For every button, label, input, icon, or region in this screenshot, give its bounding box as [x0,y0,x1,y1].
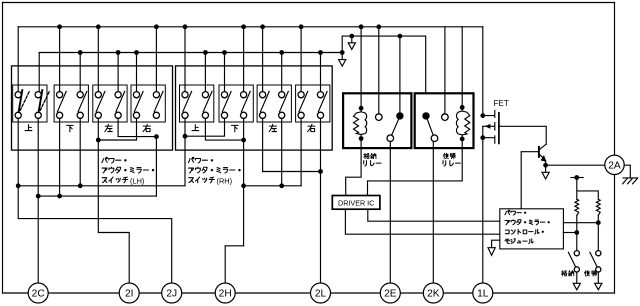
wire LH top stub 0 to rail1 [59,27,61,92]
node Q1 emitter junction [543,163,548,168]
switch cell 上 outline [13,85,47,122]
label 上 [192,125,199,131]
svg-text:2A: 2A [608,160,621,171]
return relay coil (inductor + resistor) [456,107,469,138]
node rail4 / LH down-a [57,194,62,199]
return relay switch arm [427,119,433,135]
node rail6 / RH down-b column [241,183,246,188]
retract position switch contact top [574,251,579,256]
label LH switch line1 [102,157,126,163]
wire LH top stub 1 to rail1 [97,27,99,92]
retract relay NC contact [376,114,383,121]
resistor R1 [575,199,579,215]
wire Q1 base to module [521,152,539,209]
switch 上 contact bottom [35,112,41,118]
wire supply stub [571,177,583,179]
return position switch arm [590,252,597,267]
wire outer loop top edge [3,2,615,4]
wire RH up-a down to junction [184,118,186,136]
power outer mirror switch LH block outline [12,66,173,150]
switch 上 contact top [35,92,41,98]
wire LH left-a to right-a crosslink [98,118,136,140]
switch 右 contact top [133,92,139,98]
label retract switch [561,271,573,276]
wire LH right-b down to rail4 [155,137,157,197]
wire return relay coil pin to rail1 [461,27,463,108]
wire RH left-b down to rail6 [281,118,283,185]
transistor Q1 emitter lead [539,154,545,165]
wire module to resistor R2 column [563,222,598,224]
wire rail3 (LH) [18,185,185,187]
wire rail B+ upper (to relays and FET) [18,26,483,28]
node rail2b / retract relay contact NO [398,34,403,39]
connector arrow return switch [595,283,602,290]
wire LH top stub 0 to rail2 [79,53,81,92]
connector 2H [215,283,235,303]
FET source terminal [483,126,495,143]
node FET drain [480,113,485,118]
retract relay coil (resistor + inductor) [354,108,367,138]
connector arrow to other circuit 2 [339,60,346,67]
resistor R2 [596,199,600,215]
wire RH left-a down to rail5 [262,118,264,171]
switch 下 arm [57,91,66,111]
switch 右 contact top [317,92,323,98]
label return relay line1 [443,153,455,158]
wire rail upper right drop to FET drain [482,27,484,116]
wire return relay common to 2K [432,142,434,284]
wire rail5 (RH left-a to 2L column) [263,171,321,173]
switch 下 contact top [57,92,63,98]
node rail2 / LH down-b [78,50,83,55]
switch 右 arm [154,91,163,111]
switch 下 arm [78,91,87,111]
switch 上 arm [183,91,192,111]
switch 左 arm [116,91,125,111]
switch 下 contact bottom [77,112,83,118]
node rail3 / LH down-b [78,183,83,188]
svg-text:2C: 2C [32,289,45,300]
switch cell 上 outline [180,85,214,122]
switch 左 contact bottom [115,112,121,118]
node return coil top [460,105,465,110]
wire R2 to return position switch [597,223,599,251]
switch 上 arm actuated position (dashed) [20,91,29,111]
wire LH left-a jog to 2I [98,140,129,283]
switch 上 contact bottom [182,112,188,118]
connector arrow retract switch [573,283,580,290]
retract relay NO contact (closed) [396,112,403,119]
node rail2 / RH down-a [222,50,227,55]
node rail2 / RH up-b [203,50,208,55]
node rail2 / RH left-b [279,50,284,55]
wire RH top stub 1 to rail1 [243,27,245,92]
node rail1 / RH down-b [241,24,246,29]
chassis ground symbol [623,178,638,184]
switch 右 arm [134,91,143,111]
switch 右 contact bottom [298,112,304,118]
wire Q1 emitter arrow stub [545,165,547,172]
connector arrow below Q1 [542,172,549,179]
node rail6 / RH left-b [279,183,284,188]
wire LH top stub 2 to rail1 [155,27,157,92]
node rail1 / LH left-a [96,24,101,29]
node supply stub [574,175,579,180]
node rail4 left end / 2C column [36,194,41,199]
switch 下 contact top [221,92,227,98]
node rail1 / LH right-b [154,24,159,29]
switch cell 左 outline [257,85,291,122]
label RH switch line3 [189,177,214,183]
node rail1 / retract relay coil [359,24,364,29]
label 右 [308,124,315,131]
node retract coil bottom [359,136,364,141]
switch 上 contact bottom [202,112,208,118]
connector arrow to other circuit 1 [348,43,355,50]
wire retract relay coil to driver IC [346,139,361,196]
node R2 bottom / module wire [596,220,601,225]
switch 下 contact bottom [57,112,63,118]
label module line1 [505,210,526,215]
switch 上 contact bottom [15,112,21,118]
return position switch contact bottom [596,267,601,272]
switch 右 arm [318,91,327,111]
node return coil bottom [460,137,465,142]
wire LH top stub 2 to rail2 [136,53,138,92]
svg-text:2E: 2E [384,289,397,300]
label module line4 [505,239,533,244]
node rail1 / retract relay contact [376,24,381,29]
wire RH up-b to down-b crosslink [205,118,243,140]
label RH switch line1 [188,157,212,163]
power outer mirror control module box [500,209,564,249]
svg-text:2I: 2I [125,289,134,300]
switch 下 arm [241,91,250,111]
wire LH down-a stub to rail4 [59,118,61,196]
retract relay box [343,93,411,148]
connector 2K [423,283,443,303]
wire RH top stub 3 to rail1 [300,27,302,92]
switch 右 contact bottom [153,112,159,118]
return position switch contact top [596,251,601,256]
wire LH top stub 1 to rail2 [117,53,119,92]
connector 2A [605,155,624,174]
svg-text:2L: 2L [315,289,327,300]
node rail3 left end [16,183,21,188]
connector 2C [28,283,48,303]
wire RH right-b column to 2L [320,118,322,283]
switch 左 contact top [95,92,101,98]
wire outer loop right edge lower (2A to bus) [614,175,616,294]
svg-text:1L: 1L [477,289,489,300]
return relay NO contact (closed) [422,112,429,119]
label 左 [269,124,276,131]
label 下 [67,125,74,132]
wire LH left-b to right-b crosslink [118,118,156,136]
transistor Q1 collector lead [539,144,546,149]
wire RH right-a down to rail6 [300,118,302,185]
switch 左 contact bottom [279,112,285,118]
wire RH up-a to down-a crosslink [185,118,225,136]
switch 上 arm (closed position) [19,90,23,112]
driver IC box [332,196,380,210]
switch 左 arm [260,91,269,111]
switch 左 arm [96,91,105,111]
switch 下 contact top [77,92,83,98]
node rail2 / LH left-b [116,50,121,55]
return relay NC contact [442,114,449,121]
switch 右 contact top [153,92,159,98]
wire module to resistor R1 column [563,232,576,234]
wire retract relay coil pin to rail1 [360,27,362,108]
transistor Q1 base bar [538,147,540,157]
label 左 [105,124,112,131]
return relay box [415,93,474,148]
connector arrow module ground [488,248,495,256]
wire RH top stub 0 to rail2 [204,53,206,92]
switch 左 arm [280,91,289,111]
switch 下 contact bottom [221,112,227,118]
svg-text:2K: 2K [427,289,440,300]
wire stub down to resistors [577,178,599,200]
label LH switch line2 [102,167,154,173]
label LH switch line3 [102,177,128,183]
wire driver IC to module (lower) [345,209,499,234]
node rail1 / RH up-a [183,24,188,29]
wire return switch to ground arrow [597,272,599,283]
switch 上 arm actuated position (dashed) [40,91,49,111]
node LH right-b junction [154,134,159,139]
switch 上 arm (closed position) [39,90,43,112]
label return relay line2 [443,161,460,166]
wire rail upper left drop to LH up switch [17,27,19,92]
node FET source [480,135,485,140]
switch 左 contact top [115,92,121,98]
wire bottom bus [3,292,615,294]
wire RH top stub 2 to rail2 [281,53,283,92]
node R1 bottom / module wire [574,230,579,235]
wire RH down-b column through rail6 [243,118,245,245]
wire module ground stub [492,240,500,248]
node RH up-a junction [183,134,188,139]
wire return relay coil to driver IC [368,139,463,196]
retract relay common contact [387,135,394,142]
retract position switch contact bottom [574,267,579,272]
switch cell 下 outline [54,85,88,122]
switch 左 contact top [279,92,285,98]
switch cell 左 outline [93,85,127,122]
wire RH top stub 2 to rail1 [262,27,264,92]
svg-text:(RH): (RH) [217,176,233,185]
wire rail4 [38,195,156,197]
node retract coil top [359,106,364,111]
label RH switch line2 [188,167,240,173]
node rail5 / 2L column [318,169,323,174]
wire RH top stub 3 to rail2 [320,53,322,92]
FET gate electrode [498,113,500,143]
label return switch [584,271,596,276]
node rail2 corner junction [340,50,345,55]
switch 上 contact top [202,92,208,98]
connector 2I [119,283,139,303]
switch 下 arm [222,91,231,111]
wire retract switch to ground arrow [576,272,578,283]
label retract relay line1 [364,153,376,158]
node rail1 / RH right-a [299,24,304,29]
wire retract relay NC contact pin to rail1 [378,27,380,114]
wire 2A to chassis ground [624,165,630,178]
connector 2L [311,283,331,303]
node RH down-b junction [241,138,246,143]
FET drain terminal [483,110,495,117]
wire rail lower left drop to LH up switch b [38,53,40,92]
wire LH left-a to 2I jog (upper part) [97,118,99,140]
wire RH up-a down to rail3 end [184,136,186,186]
wire driver IC to module (upper) [368,209,500,221]
switch 上 contact top [15,92,21,98]
switch 左 contact bottom [260,112,266,118]
wire retract relay NO contact pin to rail2 [399,36,401,112]
wire outer loop right edge upper (to 2A) [614,3,616,156]
wire rail6 [244,185,302,187]
connector 1L [473,283,493,303]
node rail1 / LH down-a [57,24,62,29]
wire outer loop left edge [2,3,4,294]
wire return relay NC contact pin to rail1 [444,27,446,114]
switch 下 contact bottom [241,112,247,118]
svg-text:2J: 2J [166,289,177,300]
wire stub to other circuit 1 [351,36,353,43]
label 右 [143,124,150,131]
wire RH down-b jog to 2H [225,246,243,283]
label 上 [25,125,32,131]
wire FET source to 1L [482,138,484,283]
node rail1 / RH left-a [260,24,265,29]
wire RH top stub 1 to rail2 [224,53,226,92]
FET body arrow [485,124,491,129]
transistor Q1 emitter arrow [541,155,547,162]
wire LH up-a down to rail3 [17,118,19,185]
switch 右 contact bottom [133,112,139,118]
svg-text:DRIVER IC: DRIVER IC [338,198,374,207]
connector 2J [162,283,182,303]
switch cell 下 outline [219,85,253,122]
wire LH down-b stub to rail3 [79,118,81,185]
node LH left-a junction [96,138,101,143]
wire Q1 emitter to 2A [546,164,605,166]
wire rail3 to 2J jog [18,186,172,283]
retract position switch arm [568,252,575,267]
svg-text:2H: 2H [219,289,232,300]
wire LH up-b column to 2C [37,118,39,283]
switch 上 contact top [182,92,188,98]
node rail2 / LH right-a [134,50,139,55]
retract relay switch arm [392,119,399,135]
wire rail lower (second supply rail) [39,36,426,93]
switch 右 contact bottom [317,112,323,118]
switch 右 arm [299,91,308,111]
switch 下 contact top [241,92,247,98]
return relay common contact [431,135,438,142]
power outer mirror switch RH block outline [176,66,333,150]
node rail2b / stub arrow 1 [349,34,354,39]
wire retract relay common to 2E [389,142,391,284]
switch cell 右 outline [131,85,165,122]
wire R1 to retract position switch [576,233,578,251]
wire FET gate to transistor collector [499,126,546,144]
label 下 [231,125,238,132]
switch 上 arm [203,91,212,111]
svg-text:FET: FET [494,99,509,108]
switch 左 contact bottom [95,112,101,118]
label retract relay line2 [364,161,381,166]
wire RH top stub 0 to rail1 [184,27,186,92]
wire stub to other circuit 2 [341,53,343,60]
connector 2E [380,283,400,303]
node rail2 / RH right-b [318,50,323,55]
label module line3 [505,229,543,234]
switch cell 右 outline [296,85,330,122]
FET body terminal [483,123,495,130]
svg-text:(LH): (LH) [130,176,144,185]
label module line2 [505,220,549,225]
switch 右 contact top [298,92,304,98]
switch 左 contact top [260,92,266,98]
